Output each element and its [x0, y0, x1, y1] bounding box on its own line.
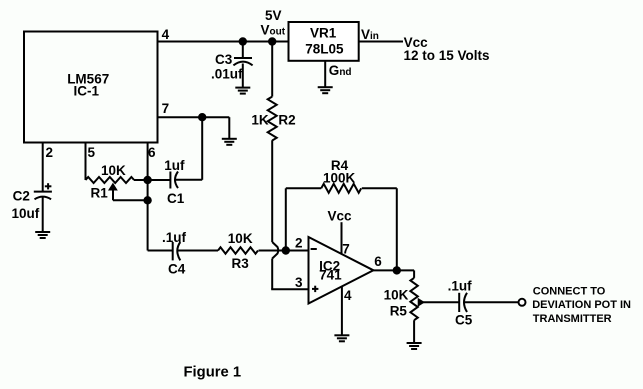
svg-text:R2: R2 — [278, 112, 295, 127]
svg-text:Vin: Vin — [361, 27, 379, 42]
svg-text:DEVIATION POT IN: DEVIATION POT IN — [532, 299, 631, 311]
svg-text:VR1: VR1 — [310, 25, 337, 40]
svg-text:C1: C1 — [167, 191, 185, 206]
svg-text:R5: R5 — [390, 303, 408, 318]
svg-text:10K: 10K — [228, 231, 253, 246]
svg-text:.1uf: .1uf — [162, 230, 187, 245]
svg-text:C5: C5 — [455, 313, 473, 328]
svg-text:1uf: 1uf — [164, 158, 185, 173]
svg-text:Gnd: Gnd — [329, 63, 352, 78]
svg-text:2: 2 — [295, 236, 303, 251]
svg-text:5: 5 — [88, 145, 96, 160]
svg-text:C4: C4 — [168, 262, 186, 277]
svg-text:10uf: 10uf — [12, 206, 40, 221]
svg-text:Figure 1: Figure 1 — [184, 364, 242, 380]
svg-text:6: 6 — [148, 145, 156, 160]
svg-text:R3: R3 — [232, 256, 250, 271]
svg-text:Vout: Vout — [261, 23, 286, 38]
svg-text:.01uf: .01uf — [211, 67, 243, 82]
svg-text:C3: C3 — [215, 52, 233, 67]
svg-text:IC-1: IC-1 — [74, 83, 100, 98]
svg-text:12 to 15 Volts: 12 to 15 Volts — [404, 48, 490, 63]
svg-text:TRANSMITTER: TRANSMITTER — [533, 313, 612, 325]
svg-text:2: 2 — [46, 145, 54, 160]
svg-text:4: 4 — [162, 27, 170, 42]
svg-text:CONNECT TO: CONNECT TO — [533, 285, 606, 297]
svg-text:741: 741 — [319, 268, 342, 283]
svg-text:1K: 1K — [251, 112, 269, 127]
svg-text:R1: R1 — [91, 185, 109, 200]
svg-text:C2: C2 — [13, 189, 30, 204]
svg-text:3: 3 — [295, 275, 303, 290]
svg-text:100K: 100K — [323, 170, 356, 185]
svg-text:7: 7 — [342, 241, 350, 256]
svg-text:10K: 10K — [101, 163, 126, 178]
svg-text:4: 4 — [344, 288, 352, 303]
svg-text:7: 7 — [162, 101, 170, 116]
svg-text:5V: 5V — [265, 8, 282, 23]
svg-text:10K: 10K — [384, 287, 409, 302]
svg-text:6: 6 — [374, 254, 382, 269]
svg-text:Vcc: Vcc — [328, 209, 353, 224]
svg-text:78L05: 78L05 — [305, 42, 344, 57]
svg-text:.1uf: .1uf — [448, 279, 473, 294]
